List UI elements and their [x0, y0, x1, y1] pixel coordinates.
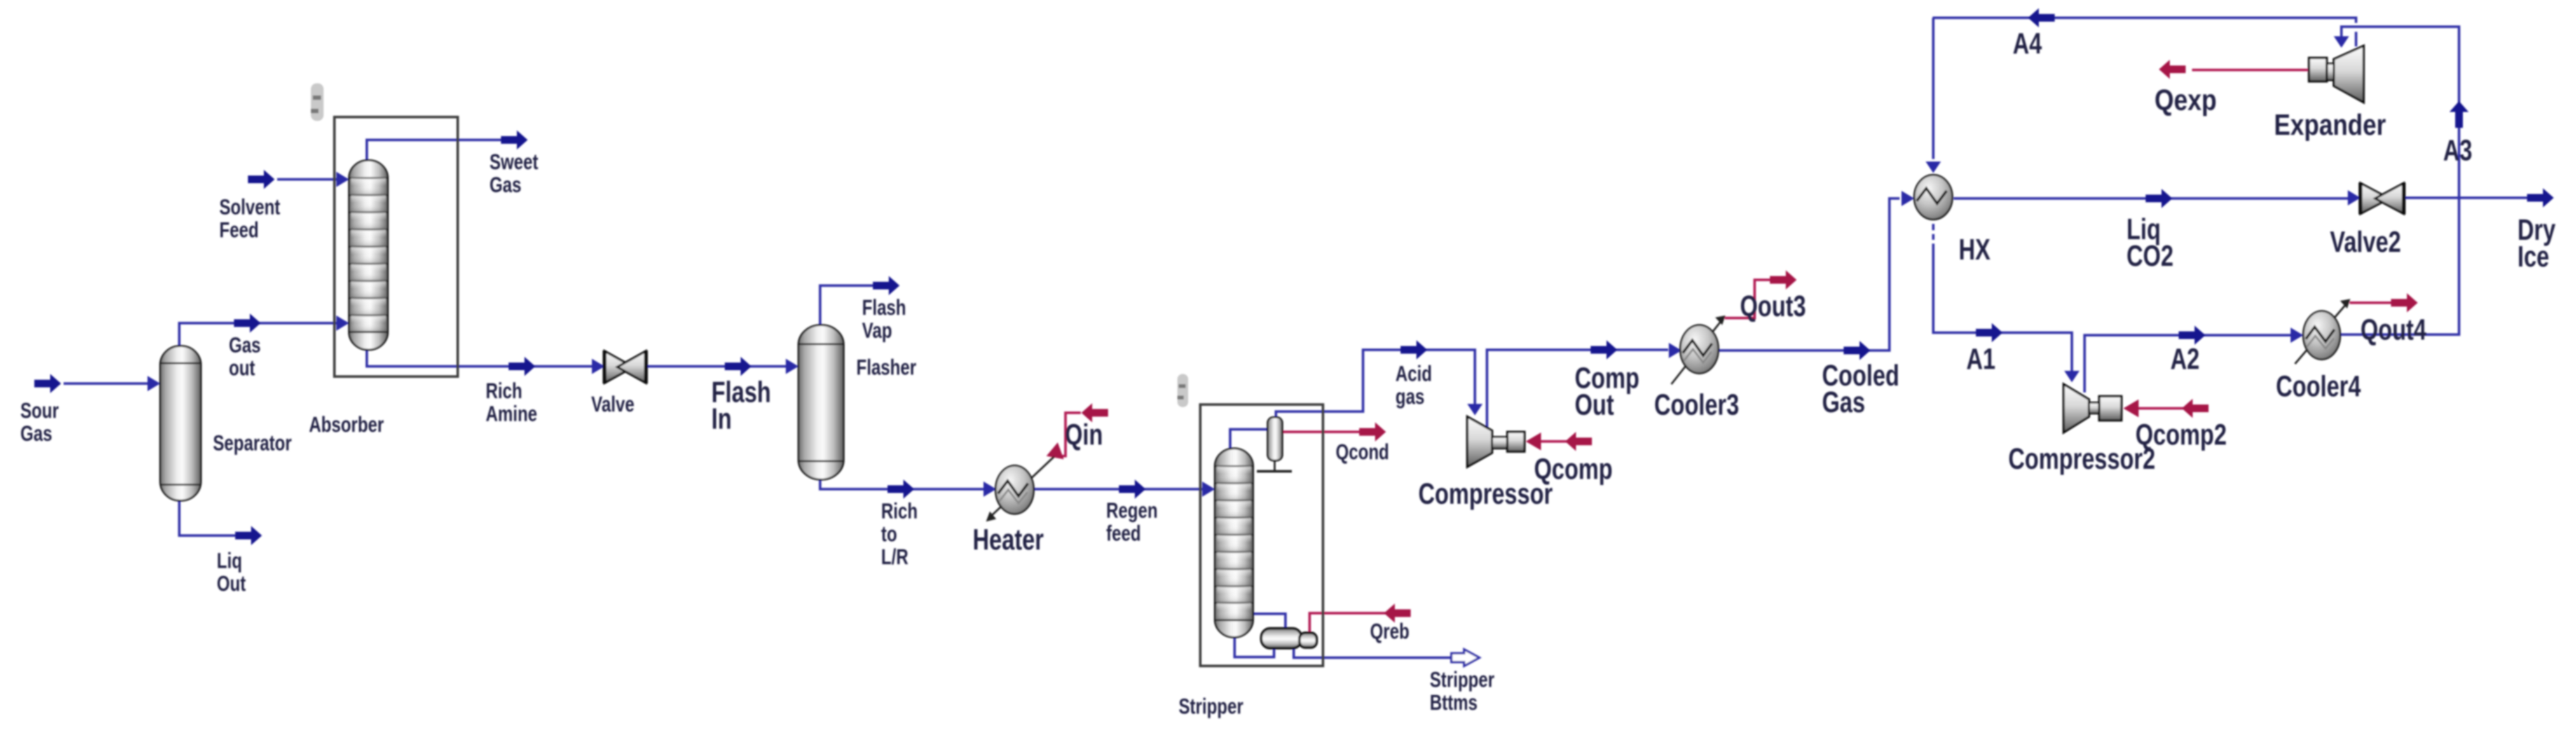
svg-text:Absorber: Absorber — [309, 413, 384, 437]
svg-text:Acid: Acid — [1395, 362, 1432, 386]
svg-text:Gas: Gas — [229, 333, 261, 357]
svg-text:Solvent: Solvent — [219, 195, 280, 219]
svg-text:Feed: Feed — [219, 218, 259, 242]
svg-text:Expander: Expander — [2274, 109, 2386, 141]
svg-text:Compressor2: Compressor2 — [2008, 443, 2155, 475]
svg-text:Sweet: Sweet — [490, 150, 538, 174]
svg-text:Gas: Gas — [490, 173, 521, 197]
svg-text:A4: A4 — [2013, 27, 2042, 60]
svg-text:L/R: L/R — [881, 545, 908, 569]
svg-text:Qin: Qin — [1065, 419, 1103, 451]
svg-text:CO2: CO2 — [2127, 240, 2174, 272]
svg-text:Stripper: Stripper — [1179, 695, 1243, 719]
svg-text:Sour: Sour — [20, 399, 59, 423]
svg-text:Out: Out — [217, 572, 246, 596]
svg-text:Compressor: Compressor — [1418, 478, 1552, 510]
svg-text:gas: gas — [1395, 385, 1425, 409]
svg-text:Valve: Valve — [591, 392, 634, 417]
svg-text:HX: HX — [1959, 233, 1990, 266]
svg-text:Rich: Rich — [486, 379, 522, 403]
svg-text:Qreb: Qreb — [1370, 620, 1409, 644]
svg-text:Qcomp: Qcomp — [1534, 453, 1613, 485]
svg-text:Flash: Flash — [862, 296, 906, 320]
svg-text:In: In — [711, 403, 732, 435]
svg-text:Out: Out — [1575, 389, 1614, 421]
svg-text:Liq: Liq — [217, 549, 242, 573]
svg-text:Stripper: Stripper — [1430, 668, 1495, 692]
svg-text:Heater: Heater — [973, 523, 1044, 556]
svg-text:A1: A1 — [1966, 343, 1996, 375]
svg-text:Ice: Ice — [2518, 240, 2549, 273]
svg-text:Cooler3: Cooler3 — [1654, 389, 1739, 421]
svg-text:A2: A2 — [2170, 343, 2200, 375]
svg-text:Regen: Regen — [1106, 499, 1158, 523]
svg-text:Rich: Rich — [881, 499, 917, 523]
svg-text:Amine: Amine — [486, 402, 537, 426]
svg-text:Valve2: Valve2 — [2330, 226, 2401, 258]
svg-text:Separator: Separator — [213, 431, 292, 455]
svg-text:feed: feed — [1106, 522, 1141, 546]
svg-text:Qout3: Qout3 — [1740, 290, 1806, 322]
svg-text:Gas: Gas — [1822, 386, 1865, 419]
svg-text:Qout4: Qout4 — [2360, 314, 2427, 346]
svg-text:Flasher: Flasher — [856, 356, 916, 380]
svg-text:out: out — [229, 356, 255, 380]
svg-text:Vap: Vap — [862, 319, 892, 343]
svg-text:Bttms: Bttms — [1430, 691, 1477, 715]
svg-text:Qexp: Qexp — [2155, 84, 2217, 117]
svg-text:Qcond: Qcond — [1336, 440, 1389, 464]
svg-text:Cooler4: Cooler4 — [2276, 370, 2361, 403]
svg-text:A3: A3 — [2443, 134, 2472, 167]
svg-text:Gas: Gas — [20, 422, 52, 446]
svg-text:to: to — [881, 522, 897, 546]
